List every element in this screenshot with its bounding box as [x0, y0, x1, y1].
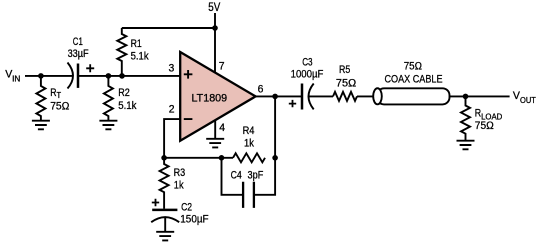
wire R5 to coax: [357, 95, 376, 97]
node dot pin2 feedback: [161, 155, 167, 161]
coax cable left ellipse: [373, 88, 382, 104]
svg-text:1k: 1k: [174, 180, 184, 192]
node junction dot at RT: [38, 73, 44, 79]
capacitor C3: [301, 84, 304, 110]
svg-text:R1: R1: [131, 38, 142, 50]
svg-text:75Ω: 75Ω: [404, 60, 422, 72]
node VIN label: [5, 69, 20, 84]
svg-text:R5: R5: [339, 64, 350, 76]
node junction dot 5V rail: [212, 25, 218, 31]
node dot C4 left: [219, 155, 225, 161]
coax cable body: [377, 88, 450, 104]
svg-text:5.1k: 5.1k: [131, 50, 150, 62]
svg-text:OUT: OUT: [520, 96, 536, 105]
svg-text:150µF: 150µF: [180, 214, 209, 226]
svg-text:C2: C2: [181, 201, 192, 213]
resistor R3: [160, 158, 169, 209]
svg-text:1000µF: 1000µF: [291, 69, 324, 81]
svg-text:5.1k: 5.1k: [118, 100, 137, 112]
node dot output: [272, 94, 278, 100]
svg-text:33µF: 33µF: [68, 48, 89, 60]
node junction dot R1: [119, 73, 125, 79]
wire coax to VOUT: [450, 95, 510, 97]
svg-text:LT1809: LT1809: [192, 92, 228, 104]
resistor RLOAD: [461, 96, 470, 140]
svg-text:2: 2: [169, 104, 175, 116]
svg-text:IN: IN: [12, 74, 20, 83]
resistor R4: [233, 153, 265, 162]
resistor RT: [36, 76, 45, 121]
ground under RT: [32, 121, 50, 130]
wire output node to R4: [274, 96, 276, 157]
svg-text:5V: 5V: [208, 1, 220, 14]
op-amp U1 LT1809: [180, 52, 255, 141]
wire 5V to pin 7: [214, 13, 216, 73]
wire op-amp output: [255, 95, 302, 97]
ground under RLOAD: [457, 141, 475, 150]
capacitor C4: [222, 158, 276, 195]
resistor R1: [117, 28, 126, 76]
capacitor C2: [152, 209, 177, 212]
svg-text:COAX CABLE: COAX CABLE: [385, 74, 443, 86]
node dot R4 right: [272, 155, 278, 161]
svg-text:3pF: 3pF: [248, 169, 264, 181]
resistor R5: [333, 92, 357, 101]
svg-text:75Ω: 75Ω: [336, 78, 357, 90]
svg-text:75Ω: 75Ω: [475, 120, 494, 132]
node 5V: [208, 1, 220, 14]
ground under C2: [156, 232, 174, 241]
ground under R2: [99, 121, 117, 130]
node VOUT label: [513, 90, 536, 105]
svg-text:75Ω: 75Ω: [50, 101, 69, 113]
wire R1 top to 5V rail: [122, 27, 215, 29]
svg-text:4: 4: [219, 122, 225, 134]
wire pin 2: [164, 119, 180, 158]
svg-text:7: 7: [219, 61, 225, 73]
wire C3 to R5: [309, 95, 333, 97]
node dot RLOAD: [463, 94, 469, 100]
node junction dot R2: [106, 73, 112, 79]
svg-text:R4: R4: [243, 125, 255, 137]
svg-text:T: T: [57, 91, 62, 100]
capacitor C1: [68, 63, 74, 89]
wire C1 to op-amp pin 3: [78, 75, 181, 77]
svg-text:6: 6: [258, 84, 264, 96]
svg-text:3: 3: [169, 62, 175, 74]
wire feedback node line: [164, 157, 233, 159]
svg-text:R3: R3: [174, 167, 186, 179]
ground op-amp pin 4: [206, 121, 224, 148]
svg-text:1k: 1k: [244, 138, 254, 150]
wire VIN to C1: [25, 75, 72, 77]
svg-text:C3: C3: [302, 56, 312, 68]
svg-text:C1: C1: [73, 36, 83, 48]
svg-text:R2: R2: [118, 87, 130, 99]
svg-text:C4: C4: [231, 169, 242, 181]
resistor R2: [104, 76, 113, 121]
